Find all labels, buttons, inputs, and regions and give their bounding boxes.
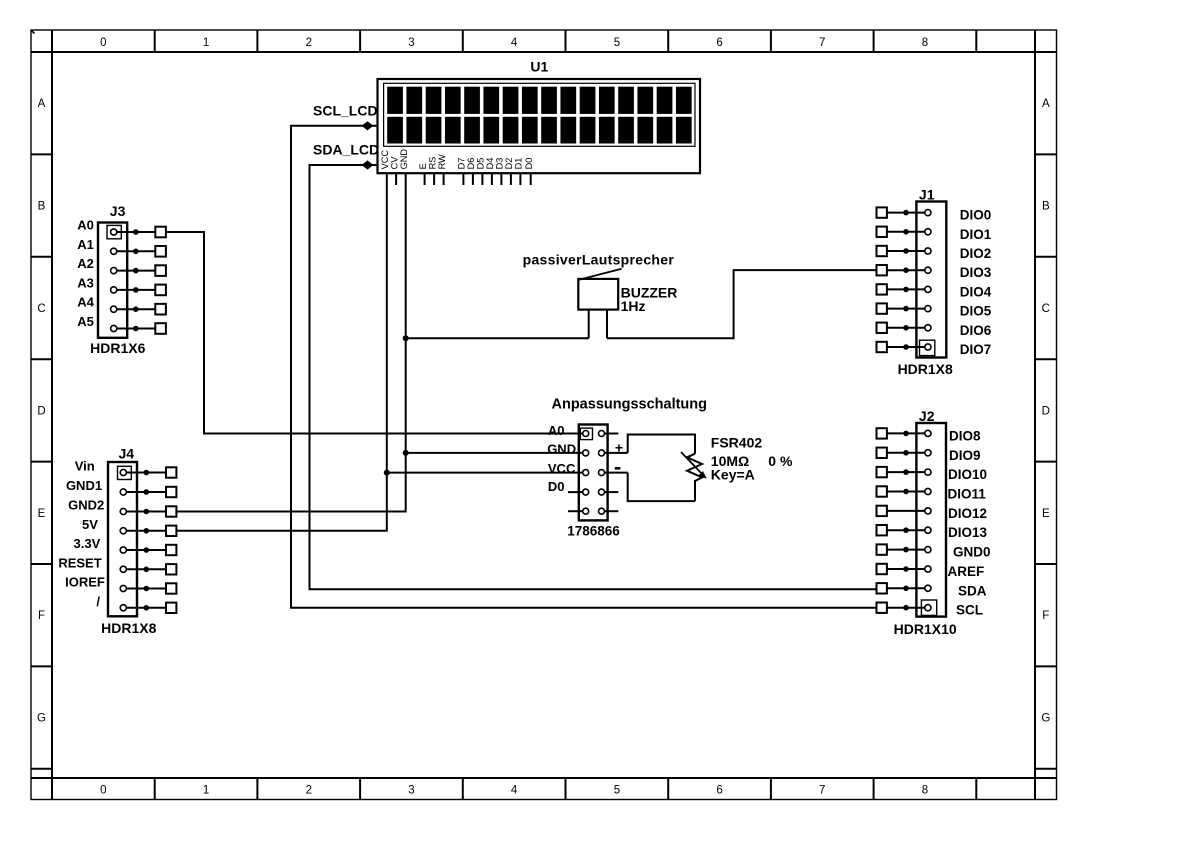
svg-text:D0: D0 — [524, 158, 534, 170]
svg-text:F: F — [1042, 610, 1049, 622]
svg-text:D1: D1 — [514, 158, 524, 170]
svg-text:A0: A0 — [77, 218, 94, 233]
svg-text:8: 8 — [922, 37, 928, 49]
svg-text:/: / — [96, 594, 100, 609]
svg-text:B: B — [1042, 201, 1050, 213]
svg-text:5: 5 — [614, 785, 620, 797]
svg-text:HDR1X10: HDR1X10 — [894, 621, 957, 637]
svg-text:1786866: 1786866 — [567, 524, 620, 539]
svg-text:A: A — [38, 98, 46, 110]
svg-text:D2: D2 — [504, 158, 514, 170]
svg-text:A0: A0 — [548, 423, 565, 438]
svg-text:C: C — [37, 303, 45, 315]
svg-text:VCC: VCC — [548, 461, 576, 476]
svg-text:Anpassungsschaltung: Anpassungsschaltung — [552, 397, 708, 413]
svg-text:DIO4: DIO4 — [960, 284, 992, 299]
svg-text:DIO10: DIO10 — [948, 467, 987, 482]
svg-text:SCL_LCD: SCL_LCD — [313, 102, 378, 118]
svg-text:GND: GND — [399, 149, 409, 170]
svg-text:DIO9: DIO9 — [949, 448, 981, 463]
svg-text:D0: D0 — [548, 479, 565, 494]
svg-text:D5: D5 — [476, 158, 486, 170]
svg-text:6: 6 — [716, 785, 722, 797]
svg-text:D4: D4 — [485, 158, 495, 170]
svg-text:SDA_LCD: SDA_LCD — [313, 141, 379, 157]
svg-text:RESET: RESET — [58, 555, 101, 570]
svg-text:VCC: VCC — [380, 150, 390, 170]
svg-text:1: 1 — [203, 785, 209, 797]
svg-text:DIO2: DIO2 — [960, 246, 992, 261]
svg-text:D7: D7 — [457, 158, 467, 170]
svg-text:3: 3 — [408, 785, 414, 797]
svg-text:CV: CV — [389, 156, 399, 170]
svg-text:E: E — [38, 508, 46, 520]
svg-text:E: E — [1042, 508, 1050, 520]
svg-text:U1: U1 — [530, 58, 548, 74]
svg-text:HDR1X6: HDR1X6 — [90, 340, 145, 356]
svg-text:Vin: Vin — [75, 459, 95, 474]
svg-text:DIO7: DIO7 — [960, 342, 992, 357]
svg-text:5V: 5V — [82, 517, 98, 532]
svg-text:8: 8 — [922, 785, 928, 797]
svg-text:C: C — [1042, 303, 1050, 315]
svg-text:DIO8: DIO8 — [949, 428, 981, 443]
svg-text:4: 4 — [511, 37, 518, 49]
svg-text:DIO3: DIO3 — [960, 265, 992, 280]
svg-text:7: 7 — [819, 37, 825, 49]
svg-text:SDA: SDA — [958, 583, 987, 598]
svg-text:3: 3 — [408, 37, 414, 49]
svg-text:DIO11: DIO11 — [948, 487, 987, 502]
svg-text:0: 0 — [100, 37, 106, 49]
svg-text:HDR1X8: HDR1X8 — [101, 620, 156, 636]
svg-text:J4: J4 — [119, 446, 135, 462]
svg-text:G: G — [37, 713, 46, 725]
svg-text:D6: D6 — [466, 158, 476, 170]
svg-text:3.3V: 3.3V — [74, 536, 101, 551]
svg-text:D3: D3 — [495, 158, 505, 170]
svg-text:G: G — [1041, 713, 1050, 725]
svg-text:DIO13: DIO13 — [948, 525, 988, 540]
svg-text:Key=A: Key=A — [711, 467, 755, 483]
svg-text:passiverLautsprecher: passiverLautsprecher — [523, 251, 675, 267]
svg-text:F: F — [38, 610, 45, 622]
svg-text:J3: J3 — [110, 203, 126, 219]
svg-text:SCL: SCL — [956, 603, 983, 618]
svg-text:IOREF: IOREF — [65, 575, 105, 590]
svg-text:A2: A2 — [77, 256, 94, 271]
svg-text:D: D — [1042, 405, 1050, 417]
svg-text:DIO12: DIO12 — [948, 506, 987, 521]
svg-text:GND0: GND0 — [953, 545, 991, 560]
svg-text:E: E — [418, 163, 428, 169]
svg-text:2: 2 — [306, 37, 312, 49]
svg-text:D: D — [37, 405, 45, 417]
svg-text:GND: GND — [547, 441, 576, 456]
svg-text:4: 4 — [511, 785, 518, 797]
svg-text:+: + — [615, 439, 623, 455]
svg-text:A3: A3 — [77, 275, 94, 290]
svg-text:AREF: AREF — [948, 564, 985, 579]
svg-text:A5: A5 — [77, 314, 94, 329]
svg-text:GND1: GND1 — [66, 478, 102, 493]
svg-text:1: 1 — [203, 37, 209, 49]
svg-text:RW: RW — [437, 154, 447, 169]
svg-text:FSR402: FSR402 — [711, 435, 763, 451]
svg-text:A4: A4 — [77, 295, 94, 310]
svg-text:DIO5: DIO5 — [960, 304, 992, 319]
svg-text:DIO1: DIO1 — [960, 227, 992, 242]
svg-text:J1: J1 — [919, 186, 935, 202]
svg-text:DIO6: DIO6 — [960, 323, 992, 338]
svg-text:HDR1X8: HDR1X8 — [898, 361, 953, 377]
svg-text:7: 7 — [819, 785, 825, 797]
svg-text:0: 0 — [100, 785, 106, 797]
svg-text:A: A — [1042, 98, 1050, 110]
svg-text:0 %: 0 % — [768, 453, 793, 469]
svg-text:2: 2 — [306, 785, 312, 797]
svg-text:DIO0: DIO0 — [960, 208, 992, 223]
svg-text:1Hz: 1Hz — [621, 298, 646, 314]
svg-text:B: B — [38, 201, 46, 213]
svg-text:GND2: GND2 — [68, 498, 104, 513]
svg-text:A1: A1 — [77, 237, 94, 252]
svg-text:5: 5 — [614, 37, 620, 49]
svg-text:6: 6 — [716, 37, 722, 49]
svg-text:J2: J2 — [919, 408, 935, 424]
svg-text:RS: RS — [427, 157, 437, 170]
